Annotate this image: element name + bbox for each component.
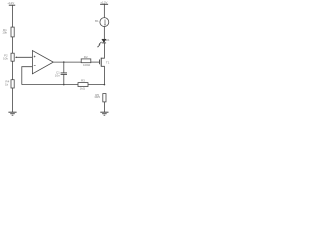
wire R3 to source node <box>88 84 104 86</box>
svg-text:+12V: +12V <box>100 1 107 5</box>
lamp B1 circle <box>100 18 109 27</box>
label C1 <box>56 71 60 75</box>
label B1 <box>95 19 99 23</box>
resistor R2 gate <box>81 59 91 63</box>
svg-text:R3: R3 <box>81 79 85 83</box>
label D1 <box>106 38 110 42</box>
transistor T1 drain lead <box>101 43 104 58</box>
ground right <box>100 111 108 113</box>
svg-text:T1: T1 <box>106 60 110 64</box>
svg-text:D1: D1 <box>106 38 110 42</box>
wire op-amp output <box>53 61 81 63</box>
wire feedback bottom run <box>22 84 78 86</box>
wire cap to feedback <box>63 74 65 84</box>
svg-text:R2: R2 <box>84 55 88 59</box>
label R1 <box>3 28 7 32</box>
wire circle to top rail <box>103 4 105 17</box>
label R1 value <box>2 30 7 34</box>
wire rail left top <box>12 5 14 27</box>
power rail +12V left label <box>7 1 14 5</box>
junction source node <box>104 84 106 86</box>
svg-text:0R5: 0R5 <box>95 95 101 99</box>
svg-text:10k: 10k <box>3 56 8 60</box>
op-amp minus sign <box>34 64 36 66</box>
label P2 value <box>3 56 8 60</box>
wiper arrow P2 to op-amp <box>16 56 32 58</box>
svg-text:1k: 1k <box>5 82 9 86</box>
resistor R1 <box>11 27 14 37</box>
op-amp plus sign <box>34 56 36 58</box>
junction output node <box>63 61 65 63</box>
label R4 <box>5 80 9 84</box>
svg-text:+12V: +12V <box>7 1 14 5</box>
label T1 <box>106 60 110 64</box>
label R3 value <box>80 86 86 90</box>
wire R4 to ground <box>12 88 14 112</box>
svg-text:1kΩ: 1kΩ <box>80 86 86 90</box>
svg-text:10n: 10n <box>55 74 60 78</box>
transistor T1 gate bar <box>99 60 101 65</box>
power rail right T-bar <box>100 3 108 5</box>
wire LED anode up <box>103 27 105 40</box>
resistor R4 <box>11 80 14 88</box>
label RS value <box>95 95 101 99</box>
wire cap branch down <box>63 62 65 73</box>
wire RS to ground <box>103 102 105 112</box>
junction cap feedback <box>63 84 65 86</box>
transistor T1 channel bar <box>100 58 102 67</box>
lamp B1 arrow inside <box>104 20 106 25</box>
label R3 <box>81 79 85 83</box>
potentiometer P2 <box>11 53 14 61</box>
svg-text:10k: 10k <box>2 30 7 34</box>
resistor RS <box>103 94 106 102</box>
label R4 value <box>5 82 9 86</box>
power rail +12V right label <box>100 1 107 5</box>
resistor R3 feedback <box>78 83 88 87</box>
wire inverting input <box>22 67 33 85</box>
ground left <box>8 111 16 113</box>
capacitor C1 <box>61 72 67 74</box>
LED arrows <box>99 42 101 44</box>
transistor T1 source lead <box>101 66 104 84</box>
label RS <box>95 93 99 97</box>
svg-text:100Ω: 100Ω <box>83 63 91 67</box>
wire R2 to gate <box>91 61 100 63</box>
op-amp U1 <box>32 51 53 74</box>
label C1 value <box>55 74 60 78</box>
label R2 value <box>83 63 91 67</box>
label R2 <box>84 55 88 59</box>
LED D1 <box>102 39 106 42</box>
label P2 <box>4 54 8 58</box>
svg-text:B1: B1 <box>95 19 99 23</box>
power rail left T-bar <box>9 4 15 6</box>
wire R1 to P2 <box>12 37 14 53</box>
wire P2 to R4 <box>12 61 14 79</box>
